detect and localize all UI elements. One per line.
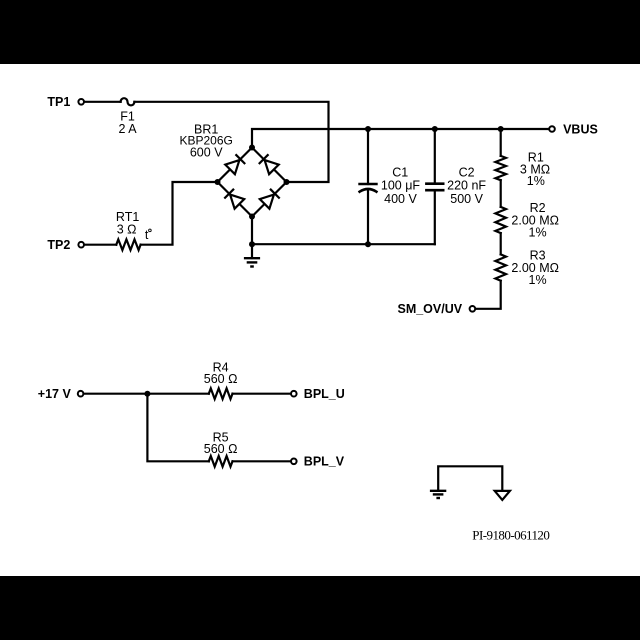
- thermistor RT1: [116, 239, 140, 250]
- resistor R2: [495, 207, 506, 233]
- svg-text:TP2: TP2: [47, 238, 70, 252]
- svg-text:+17 V: +17 V: [38, 387, 72, 401]
- wire junction down to R5 row: [147, 394, 208, 462]
- diode BR1 bottom-left (anode bottom vertex, cathode left): [224, 189, 244, 209]
- svg-text:600 V: 600 V: [190, 146, 223, 160]
- svg-text:3 Ω: 3 Ω: [117, 223, 137, 237]
- wire R2 to R3: [500, 233, 502, 254]
- svg-text:500 V: 500 V: [450, 192, 483, 206]
- svg-text:SM_OV/UV: SM_OV/UV: [397, 302, 462, 316]
- resistor R4: [209, 388, 233, 399]
- wire R1 to R2: [500, 180, 502, 207]
- wire fuse to corner and down to bridge right vertex: [134, 102, 328, 182]
- svg-text:2 A: 2 A: [118, 122, 137, 136]
- node C2 top: [432, 126, 438, 132]
- svg-text:1%: 1%: [529, 225, 547, 239]
- svg-text:BPL_U: BPL_U: [304, 387, 345, 401]
- svg-text:560 Ω: 560 Ω: [204, 442, 238, 456]
- wire bridge bottom to ground and bottom rail: [251, 217, 253, 259]
- wire RT1 up to bridge left vertex: [141, 182, 218, 245]
- wire VBUS to R1: [500, 129, 502, 156]
- wire R4 to BPL_U terminal: [233, 393, 291, 395]
- ground (earth) bottom bracket: [430, 491, 446, 498]
- white schematic canvas: [0, 64, 640, 576]
- resistor R5: [209, 456, 233, 467]
- terminal +17 V: [78, 391, 84, 397]
- wire R5 to BPL_V terminal: [233, 460, 291, 462]
- diode BR1 top-left (anode left vertex, cathode top): [225, 154, 245, 174]
- diode BR1 top-right (anode right vertex, cathode top): [259, 154, 279, 174]
- terminal VBUS: [549, 126, 555, 132]
- svg-text:400 V: 400 V: [384, 192, 417, 206]
- wire TP1 to fuse: [85, 101, 121, 103]
- node bridge top: [249, 145, 255, 151]
- wire bridge top to VBUS rail: [252, 129, 549, 148]
- terminal BPL_U: [291, 391, 297, 397]
- terminal TP2: [78, 242, 84, 248]
- fuse F1: [121, 98, 135, 105]
- node bottom rail: [249, 241, 255, 247]
- diode BR1 bottom-right (anode bottom vertex, cathode right): [260, 189, 280, 209]
- svg-text:100 μF: 100 μF: [381, 179, 421, 193]
- svg-text:1%: 1%: [529, 273, 547, 287]
- capacitor C1 branch wires: [367, 129, 369, 184]
- terminal TP1: [78, 99, 84, 105]
- terminal SM_OV/UV: [470, 306, 476, 312]
- node bridge left: [215, 179, 221, 185]
- terminal BPL_V: [291, 459, 297, 465]
- svg-text:BPL_V: BPL_V: [304, 455, 345, 469]
- ground (earth) under bridge: [244, 258, 260, 266]
- node bridge right: [284, 179, 290, 185]
- wire ground bracket: [438, 466, 502, 490]
- capacitor C1 plates (polarized): [360, 183, 377, 186]
- svg-text:560 Ω: 560 Ω: [204, 372, 238, 386]
- capacitor C2 plates: [426, 182, 443, 185]
- node R4/R5 junction: [144, 391, 150, 397]
- resistor R3: [495, 254, 506, 280]
- svg-text:C1: C1: [392, 166, 408, 180]
- ground (return triangle) bottom bracket: [495, 491, 510, 500]
- capacitor C2 branch wires: [434, 129, 436, 184]
- svg-text:PI-9180-061120: PI-9180-061120: [472, 527, 549, 542]
- bridge BR1 diamond edges: [218, 148, 287, 217]
- wire R3 to SM_OV/UV terminal: [476, 281, 501, 309]
- svg-text:TP1: TP1: [47, 95, 70, 109]
- node C1 top: [365, 126, 371, 132]
- junction dots: [144, 126, 503, 397]
- node R1 top: [498, 126, 504, 132]
- wire +17V to junction: [84, 393, 209, 395]
- svg-text:VBUS: VBUS: [563, 122, 598, 136]
- node C1 bottom: [365, 241, 371, 247]
- svg-text:C2: C2: [459, 166, 475, 180]
- node bridge bottom: [249, 214, 255, 220]
- resistor R1: [495, 156, 506, 180]
- svg-text:220 nF: 220 nF: [447, 179, 486, 193]
- wire TP2 to RT1: [85, 244, 117, 246]
- svg-text:1%: 1%: [527, 174, 545, 188]
